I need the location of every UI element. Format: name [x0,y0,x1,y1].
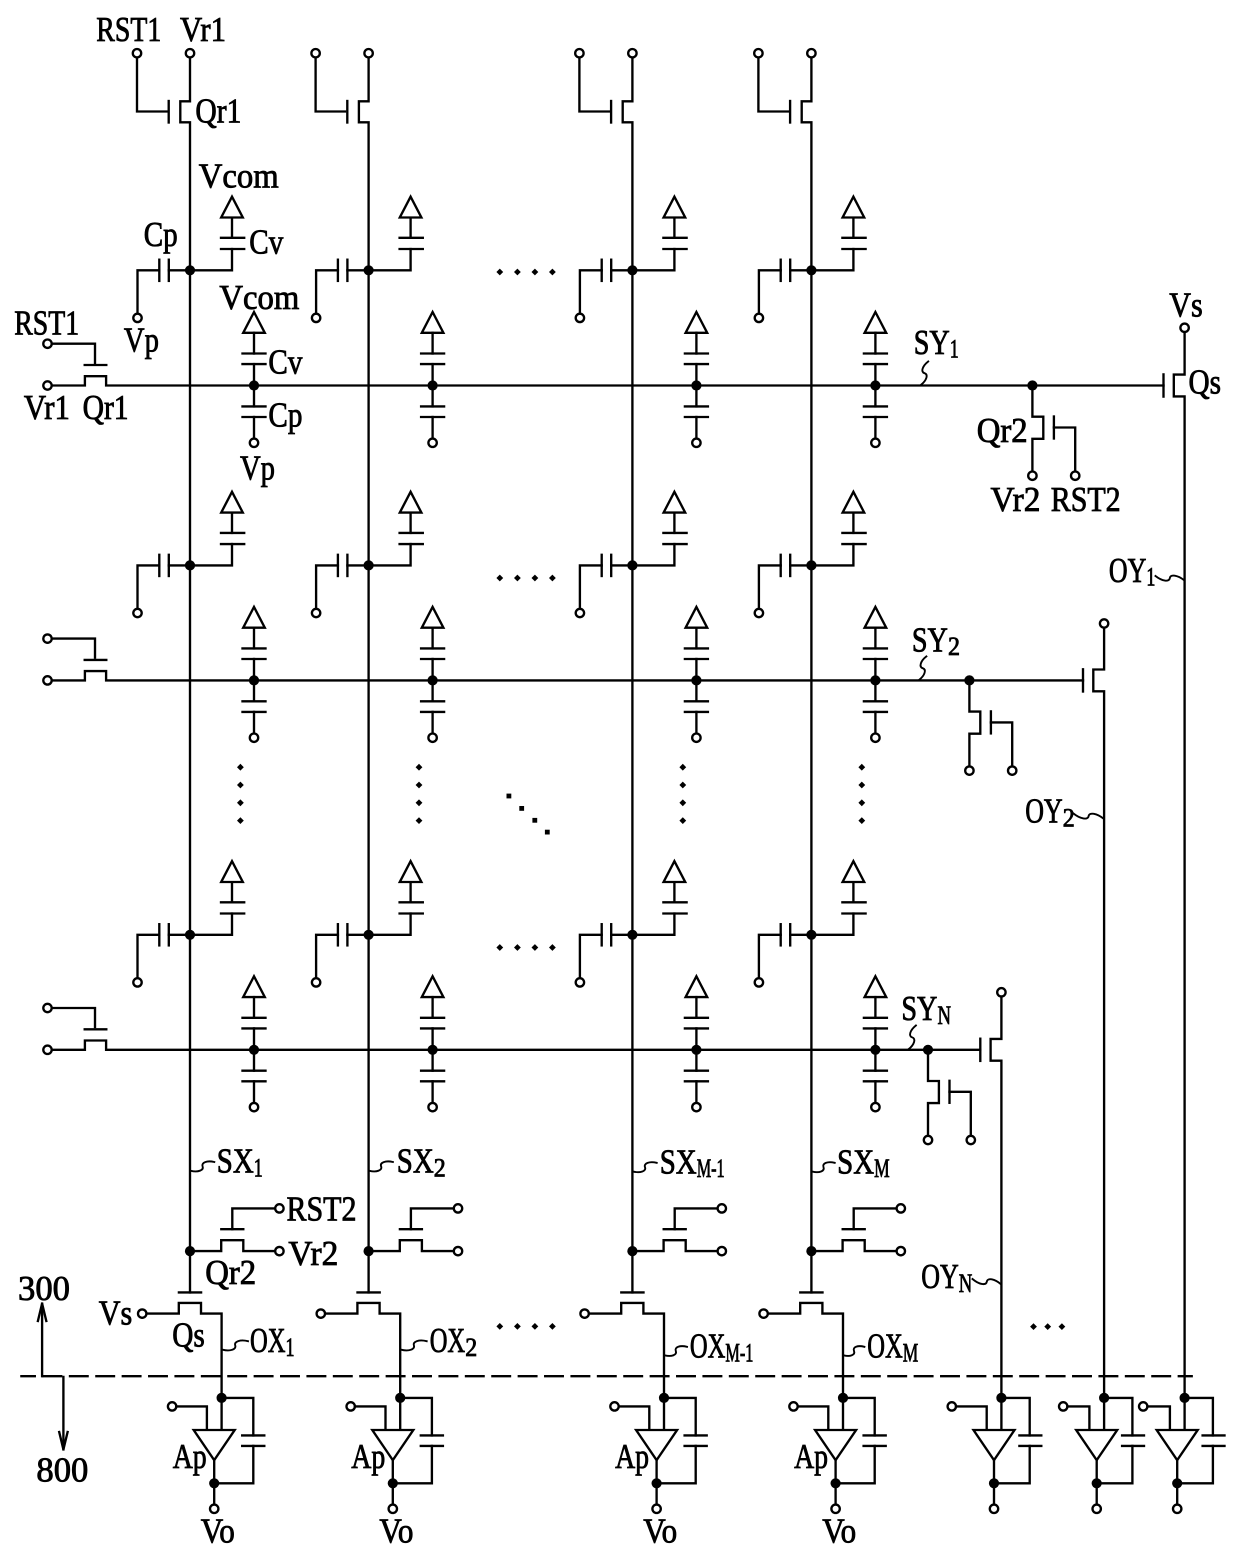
svg-text:M-1: M-1 [697,1154,725,1183]
capacitor feedback plate bottom OY2 [1122,1445,1144,1447]
capacitor Cp plate top stack col3 row2 [685,700,708,702]
terminal RST2 bottom col4 [897,1204,905,1212]
node amp output junction OY1 [1172,1478,1182,1488]
wire Vcom stem col4 mid2 [852,882,854,902]
ellipsis dots mid1 row [496,575,503,582]
transistor Qr2 bottom col2 gate bar [400,1228,422,1230]
wire Cp-Vp stack col4 row1 [874,417,876,438]
wire Vp lead col1 mid1 [138,565,160,608]
Vcom symbol col1 top [221,197,243,218]
wire Cv lead col2 mid1 [368,544,411,565]
op-amp Ap triangle OYN [974,1430,1015,1460]
wire node-Cp stack col3 row1 [695,386,697,407]
terminal Vr1 row2 [43,676,51,684]
transistor Qr2 row3 channel [928,1050,939,1135]
capacitor Cv plate top stack col1 row2 [243,647,266,649]
capacitor Cp plate top stack col2 row1 [421,405,444,407]
terminal RST1 col2 [311,49,319,57]
transistor Qr1 col2 channel [359,59,369,270]
svg-text:SY: SY [901,989,937,1028]
node amp output junction col2 [388,1478,398,1488]
terminal Vp col4 mid2 [755,978,763,986]
capacitor Cv plate bottom col1 mid2 [221,912,244,914]
ellipsis dots bottom right [1030,1323,1037,1330]
transistor row1 select gate bar [1162,374,1164,396]
wire Vp lead col4 top [759,270,781,313]
wire Cp-Vp stack col4 row2 [874,712,876,733]
wire node-Cp stack col4 row3 [874,1050,876,1071]
transistor row1 select channel [1174,332,1185,1398]
capacitor Cv plate bottom col3 mid2 [663,912,686,914]
node cell junction col4 mid2 [806,930,816,940]
svg-text:Cp: Cp [268,396,302,435]
wire Vp lead col2 mid2 [316,935,338,978]
node cell junction col2 mid1 [364,560,374,570]
svg-text:M: M [874,1154,890,1183]
terminal top OY row3 [997,988,1005,996]
node cell junction col3 top [627,265,637,275]
connector SX1 [191,1161,215,1171]
wire Cv-node stack col4 row3 [874,1028,876,1049]
svg-text:Vs: Vs [1169,286,1203,325]
op-amp Ap triangle col2 [372,1430,413,1460]
svg-text:SY: SY [914,323,950,362]
wire Vp lead col1 top [138,270,160,313]
terminal Vp stack col4 row3 [871,1103,879,1111]
terminal Vp stack col1 row2 [250,734,258,742]
wire amp output terminal lead col3 [655,1483,657,1504]
wire amp output col4 [834,1460,836,1483]
terminal RST2 row1 [1071,472,1079,480]
svg-text:Qs: Qs [172,1316,205,1355]
wire gate row1 reset [52,344,95,363]
capacitor Cp lead col2 top [347,269,364,271]
Vcom symbol col3 top [664,197,686,218]
svg-text:Vp: Vp [240,449,275,488]
terminal top OY row2 [1100,619,1108,627]
wire gate Qr2 row2 [991,722,1012,765]
transistor Qr2 row1 channel [1032,386,1043,471]
Vcom symbol col2 mid1 [400,492,422,513]
svg-text:Cv: Cv [268,343,302,382]
wire Cv lead col4 mid2 [810,914,853,935]
svg-text:Qr2: Qr2 [205,1253,256,1292]
capacitor Cp plate bottom stack col1 row3 [243,1080,266,1082]
capacitor feedback plate top col2 [421,1434,443,1436]
capacitor Cv plate top stack col2 row3 [421,1017,444,1019]
capacitor Cp plate top stack col3 row3 [685,1070,708,1072]
wire column SX2 [367,270,369,1292]
terminal Vp stack col2 row3 [428,1103,436,1111]
svg-text:Ap: Ap [351,1437,385,1476]
wire Cv-node stack col3 row2 [695,659,697,680]
wire Vcom stem col1 mid1 [231,513,233,533]
node stack junction col3 row2 [691,675,701,685]
wire amp output terminal lead OY2 [1096,1483,1098,1504]
connector OYN [973,1279,1002,1284]
transistor Qr2 row2 gate bar [990,711,992,733]
terminal Vo OY1 [1173,1505,1181,1513]
capacitor Cv plate top col2 top [400,237,423,239]
wire feedback top OY1 [1185,1398,1213,1436]
wire Cv lead col3 mid2 [631,914,674,935]
capacitor Cv plate bottom stack col3 row1 [685,363,708,365]
op-amp Ap triangle col3 [636,1430,677,1460]
terminal Vp stack col1 row1 [250,439,258,447]
svg-text:Cp: Cp [144,215,178,254]
svg-text:RST2: RST2 [1051,480,1121,519]
terminal Vp col3 mid2 [576,978,584,986]
terminal Vp stack col3 row3 [692,1103,700,1111]
capacitor Cp plate bottom stack col1 row1 [243,416,266,418]
wire Cv lead col2 top [368,249,411,270]
terminal Vs bottom col3 [580,1309,588,1317]
capacitor Cv plate top stack col1 row1 [243,352,266,354]
wire node-Cp stack col4 row2 [874,680,876,701]
node Qr2 junction row2 [964,675,974,685]
capacitor Cp plate bottom stack col2 row1 [421,416,444,418]
svg-text:Cv: Cv [249,223,283,262]
Vcom symbol stack col3 row2 [686,607,708,628]
transistor Qr2 bottom col3 channel [632,1240,717,1251]
node Qr2 bottom junction col1 [185,1246,195,1256]
connector OY1 [1156,576,1185,581]
capacitor Cp plate left col4 mid2 [780,924,782,945]
svg-text:Ap: Ap [173,1437,207,1476]
capacitor Cv plate bottom col3 top [663,248,686,250]
wire column SXM [810,270,812,1292]
connector OX2 [401,1341,427,1351]
capacitor Cp lead col4 top [790,269,807,271]
capacitor Cv plate bottom col1 top [221,248,244,250]
terminal RST2 bottom col3 [718,1204,726,1212]
capacitor Cp plate bottom stack col2 row3 [421,1080,444,1082]
terminal amp second input OY2 [1059,1402,1067,1410]
terminal Vr1 col3 [628,49,636,57]
transistor Qs bottom col4 channel [769,1303,844,1398]
wire Vcom stem col2 mid2 [409,882,411,902]
connector SY1 [921,362,928,386]
capacitor Cp plate top stack col2 row3 [421,1070,444,1072]
wire Cv-node stack col1 row2 [253,659,255,680]
wire feedback top col3 [664,1398,696,1436]
node amp output junction col4 [831,1478,841,1488]
Vcom symbol col3 mid1 [664,492,686,513]
wire amp second input col1 [176,1406,207,1430]
capacitor Cv plate top stack col4 row2 [864,647,887,649]
node cell junction col4 mid1 [806,560,816,570]
svg-text:M: M [903,1339,919,1368]
terminal Vp col3 top [576,314,584,322]
capacitor Cp plate left col2 mid1 [337,555,339,576]
capacitor Cp plate right col2 mid1 [346,555,348,576]
transistor Qr1 col1 gate bar [168,101,170,123]
capacitor Cv plate top stack col1 row3 [243,1017,266,1019]
capacitor Cp plate right col1 mid2 [168,924,170,945]
arrow 800 head [59,1432,67,1450]
terminal Vp stack col4 row2 [871,734,879,742]
terminal top OY row1 [1180,324,1188,332]
wire amp main input col4 [842,1398,844,1430]
wire amp second input OY2 [1067,1406,1089,1430]
capacitor Cp plate left col3 top [601,260,603,281]
arrow 300 head [38,1304,46,1322]
wire gate Qr2 row3 [950,1092,971,1135]
terminal RST2 row2 [1008,766,1016,774]
capacitor Cp lead col3 top [611,269,628,271]
wire Cv lead col3 mid1 [631,544,674,565]
capacitor Cp plate bottom stack col4 row1 [864,416,887,418]
wire Cv-node stack col4 row1 [874,364,876,385]
transistor Qr1 col1 channel [180,59,190,270]
wire node-Cp stack col4 row1 [874,386,876,407]
transistor Qs bottom col2 channel [326,1303,401,1398]
node stack junction col1 row3 [249,1045,259,1055]
svg-text:Vo: Vo [643,1512,677,1551]
svg-text:SX: SX [217,1142,254,1181]
capacitor Cp plate right col1 top [168,260,170,281]
wire Cv-node stack col2 row2 [431,659,433,680]
node amp output junction col3 [652,1478,662,1488]
capacitor Cp lead col4 mid2 [790,934,807,936]
capacitor feedback plate bottom col4 [864,1445,886,1447]
node cell junction col1 mid2 [185,930,195,940]
node Qr2 junction row3 [923,1045,933,1055]
terminal Vr1 row3 [43,1046,51,1054]
Vcom symbol stack col4 row3 [865,976,887,997]
capacitor Cp plate bottom stack col3 row1 [685,416,708,418]
wire Vcom stem col3 mid2 [673,882,675,902]
wire feedback bottom col3 [657,1446,696,1483]
capacitor Cv plate bottom stack col3 row2 [685,658,708,660]
wire amp output col3 [655,1460,657,1483]
terminal Vr2 bottom col2 [454,1247,462,1255]
svg-text:RST2: RST2 [287,1190,357,1229]
node cell junction col1 mid1 [185,560,195,570]
capacitor Cp plate left col1 mid2 [158,924,160,945]
transistor Qr2 row2 channel [969,680,980,765]
terminal Vp stack col2 row1 [428,439,436,447]
svg-text:Ap: Ap [615,1437,649,1476]
terminal RST1 row3 [43,1004,51,1012]
capacitor Cv plate top stack col2 row2 [421,647,444,649]
terminal RST1 row2 [43,634,51,642]
wire column SXM-1 [631,270,633,1292]
svg-text:1: 1 [254,1153,263,1182]
wire Vp lead col3 mid1 [580,565,602,608]
terminal Vp col1 mid2 [133,978,141,986]
Vcom symbol stack col1 row3 [243,976,265,997]
terminal amp second input OYN [948,1402,956,1410]
node amp input junction col4 [838,1393,848,1403]
capacitor feedback plate top col3 [685,1434,707,1436]
terminal Vr1 col4 [807,49,815,57]
wire Vcom stem stack col1 row2 [253,628,255,649]
ellipsis dots diagonal [507,794,512,799]
wire gate Qr2 bottom col2 [411,1208,454,1229]
wire Vcom stem col1 mid2 [231,882,233,902]
svg-text:M-1: M-1 [725,1339,753,1368]
svg-text:SX: SX [837,1142,874,1181]
wire amp second input OYN [956,1406,987,1430]
svg-text:RST1: RST1 [14,303,79,342]
capacitor feedback plate bottom col1 [242,1445,264,1447]
capacitor Cp plate left col2 mid2 [337,924,339,945]
wire feedback bottom col4 [836,1446,875,1483]
capacitor Cv plate top stack col3 row1 [685,352,708,354]
wire Cp-Vp stack col2 row2 [431,712,433,733]
svg-text:800: 800 [36,1451,88,1490]
svg-text:OY: OY [1109,551,1147,590]
capacitor Cv plate top col4 mid1 [842,532,865,534]
wire feedback bottom OYN [994,1446,1030,1483]
svg-text:Vcom: Vcom [219,278,299,317]
capacitor Cp lead col1 top [169,269,186,271]
terminal amp second input col4 [789,1402,797,1410]
svg-text:N: N [959,1269,973,1298]
wire Vcom stem stack col1 row3 [253,997,255,1018]
wire Cv-node stack col1 row1 [253,364,255,385]
connector SYN [909,1026,916,1050]
transistor Qr2 bottom col1 gate bar [221,1228,243,1230]
wire gate Qr2 bottom col1 [232,1208,275,1229]
terminal RST2 row3 [967,1136,975,1144]
capacitor feedback plate top OYN [1019,1434,1041,1436]
terminal amp second input OY1 [1139,1402,1147,1410]
wire gate Qr2 bottom col4 [854,1208,897,1229]
svg-text:SX: SX [660,1142,697,1181]
node stack junction col2 row2 [428,675,438,685]
svg-text:SX: SX [397,1142,434,1181]
wire Vcom stem col1 top [231,218,233,238]
node cell junction col1 top [185,265,195,275]
node amp input junction OY2 [1099,1393,1109,1403]
terminal Vr1 col2 [364,49,372,57]
wire gate row2 reset [52,639,95,658]
wire amp main input OY2 [1103,1398,1105,1430]
capacitor Cp lead col2 mid2 [347,934,364,936]
capacitor Cp plate right col3 top [610,260,612,281]
wire Vp lead col2 mid1 [316,565,338,608]
wire Cv lead col3 top [631,249,674,270]
svg-text:Qs: Qs [1189,363,1222,402]
wire Vcom stem stack col4 row1 [874,333,876,354]
transistor Qr1 col4 channel [802,59,812,270]
svg-text:Vs: Vs [99,1293,133,1332]
terminal RST1 col4 [754,49,762,57]
capacitor Cv plate top col1 mid2 [221,901,244,903]
svg-text:2: 2 [465,1333,477,1362]
wire feedback bottom col1 [214,1446,253,1483]
wire node-Cp stack col2 row1 [431,386,433,407]
wire amp main input col3 [663,1398,665,1430]
terminal RST2 bottom col2 [454,1204,462,1212]
capacitor Cp plate right col1 mid1 [168,555,170,576]
ellipsis dots vertical col2 [416,764,423,771]
transistor Qs bottom col2 gate bar [358,1291,380,1293]
transistor Qs bottom col1 gate bar [179,1291,201,1293]
svg-text:Vcom: Vcom [199,156,279,195]
transistor Qs bottom col1 channel [147,1303,222,1398]
wire amp output OYN [993,1460,995,1483]
capacitor Cp lead col3 mid2 [611,934,628,936]
transistor Qs bottom col4 gate bar [800,1291,822,1293]
terminal amp second input col1 [168,1402,176,1410]
Vcom symbol col1 mid2 [221,861,243,882]
transistor row2 select gate bar [1082,669,1084,691]
capacitor Cv plate bottom stack col4 row2 [864,658,887,660]
op-amp Ap triangle col4 [815,1430,856,1460]
capacitor Cp plate left col3 mid1 [601,555,603,576]
wire amp main input OY1 [1183,1398,1185,1430]
wire amp output terminal lead OYN [993,1483,995,1504]
Vcom symbol stack col3 row3 [686,976,708,997]
wire feedback bottom OY2 [1097,1446,1133,1483]
capacitor Cv plate bottom col4 mid2 [842,912,865,914]
terminal Vp col4 top [755,314,763,322]
node stack junction col4 row2 [870,675,880,685]
terminal Vo col3 [652,1505,660,1513]
transistor row2 reset gate bar [85,659,107,661]
node cell junction col3 mid1 [627,560,637,570]
wire Vp lead col3 mid2 [580,935,602,978]
capacitor Cv plate top stack col2 row1 [421,352,444,354]
terminal Vp col3 mid1 [576,609,584,617]
svg-text:2: 2 [1063,803,1075,832]
node Qr2 bottom junction col2 [364,1246,374,1256]
transistor Qr1 col3 channel [623,59,633,270]
node stack junction col1 row2 [249,675,259,685]
capacitor Cp plate left col2 top [337,260,339,281]
svg-text:2: 2 [434,1153,446,1182]
wire column SX1 [189,270,191,1292]
svg-text:OY: OY [921,1257,959,1296]
svg-text:Vo: Vo [201,1512,235,1551]
terminal Vp stack col2 row2 [428,734,436,742]
svg-text:OY: OY [1025,792,1063,831]
terminal RST1 col1 [133,49,141,57]
wire Cp-Vp stack col2 row1 [431,417,433,438]
transistor Qs bottom col3 channel [590,1303,665,1398]
wire feedback bottom col2 [393,1446,432,1483]
wire Vp lead col2 top [316,270,338,313]
Vcom symbol col3 mid2 [664,861,686,882]
terminal Vp col1 mid1 [133,609,141,617]
terminal Vp col2 top [312,314,320,322]
wire Cp-Vp stack col4 row3 [874,1081,876,1102]
svg-text:2: 2 [948,632,960,661]
ellipsis dots mid2 row [496,944,503,951]
capacitor Cp plate left col1 mid1 [158,555,160,576]
capacitor Cv plate bottom stack col1 row2 [243,658,266,660]
transistor row1 reset gate bar [85,364,107,366]
terminal Vs bottom col4 [759,1309,767,1317]
capacitor Cp plate top stack col4 row1 [864,405,887,407]
wire node-Cp stack col1 row3 [253,1050,255,1071]
wire Cp-Vp stack col3 row2 [695,712,697,733]
terminal Vr2 row2 [965,766,973,774]
capacitor Cv plate bottom col3 mid1 [663,543,686,545]
svg-text:Qr1: Qr1 [83,388,129,427]
svg-text:1: 1 [950,335,959,364]
svg-text:Vp: Vp [124,321,159,360]
wire Vp lead col4 mid1 [759,565,781,608]
Vcom symbol col4 top [843,197,865,218]
connector SY2 [919,656,926,680]
node stack junction col2 row1 [428,380,438,390]
capacitor Cp plate right col4 mid2 [789,924,791,945]
wire feedback top col1 [222,1398,254,1436]
